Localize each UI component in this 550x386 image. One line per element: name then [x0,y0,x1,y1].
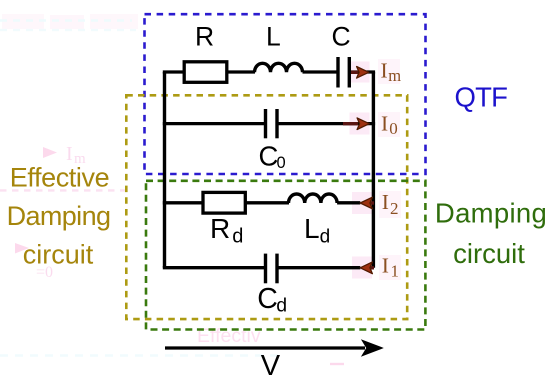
svg-text:Effective: Effective [10,163,109,193]
label Effective Damping circuit [7,163,111,270]
capacitor Cd [266,254,278,284]
wire R to L [227,70,255,73]
svg-text:C: C [257,283,278,315]
svg-text:d: d [276,294,287,316]
label I2 [382,190,399,218]
svg-text:0: 0 [389,119,398,138]
label Im [381,59,402,86]
svg-text:I: I [382,190,389,214]
wire Rd branch left segment [163,201,203,204]
svg-text:0: 0 [277,154,286,172]
current arrow I0 [343,118,369,130]
wire Rd to Ld [245,201,289,204]
capacitor C0 [266,109,278,138]
damping circuit boundary box (green dashed) [146,181,425,330]
wire C0 to right rail [279,122,376,125]
wire Cd to right rail [279,266,361,269]
svg-text:circuit: circuit [23,240,94,270]
current arrow I1 [360,262,374,274]
svg-text:C: C [259,141,279,172]
inductor L [255,63,303,72]
label Ld [304,213,330,247]
svg-text:R: R [210,213,230,244]
svg-text:C: C [332,22,351,52]
wire left rail [163,72,166,268]
wire top branch left segment [163,70,184,73]
svg-text:d: d [232,226,243,248]
svg-text:d: d [320,227,331,248]
wire C0 branch left segment [163,122,264,125]
QTF boundary box (blue dashed) [145,14,426,174]
label C0 [259,141,286,173]
svg-text:Effectiv: Effectiv [197,325,261,347]
svg-text:m: m [388,66,401,85]
svg-text:I: I [381,112,388,136]
resistor Rd [203,192,245,213]
label Cd [257,283,287,316]
label Damping circuit [435,198,547,270]
wire right rail [372,72,375,268]
voltage arrow V [165,339,384,357]
wire Ld to right rail [337,201,360,204]
svg-text:V: V [261,350,281,382]
current arrow Im [351,67,369,79]
inductor Ld [289,194,338,203]
effective damping circuit boundary box (dark yellow dashed) [126,95,407,319]
wire Cd branch left segment [163,266,264,269]
current arrow I2 [360,197,374,209]
wire C to right rail [351,70,375,73]
capacitor C [338,57,349,88]
svg-text:R: R [195,22,214,52]
svg-text:QTF: QTF [455,82,508,113]
svg-text:Damping: Damping [7,201,111,231]
wire L to C [303,70,337,73]
resistor R [184,62,227,83]
svg-text:Damping: Damping [435,198,547,229]
svg-text:I: I [382,254,389,278]
label I0 [381,112,398,139]
label Rd [210,213,243,247]
label I1 [382,254,399,281]
svg-text:2: 2 [390,199,399,218]
svg-text:L: L [304,213,320,244]
svg-text:circuit: circuit [453,238,525,269]
svg-text:I: I [381,59,388,83]
svg-text:1: 1 [391,261,400,280]
svg-text:L: L [266,22,281,52]
